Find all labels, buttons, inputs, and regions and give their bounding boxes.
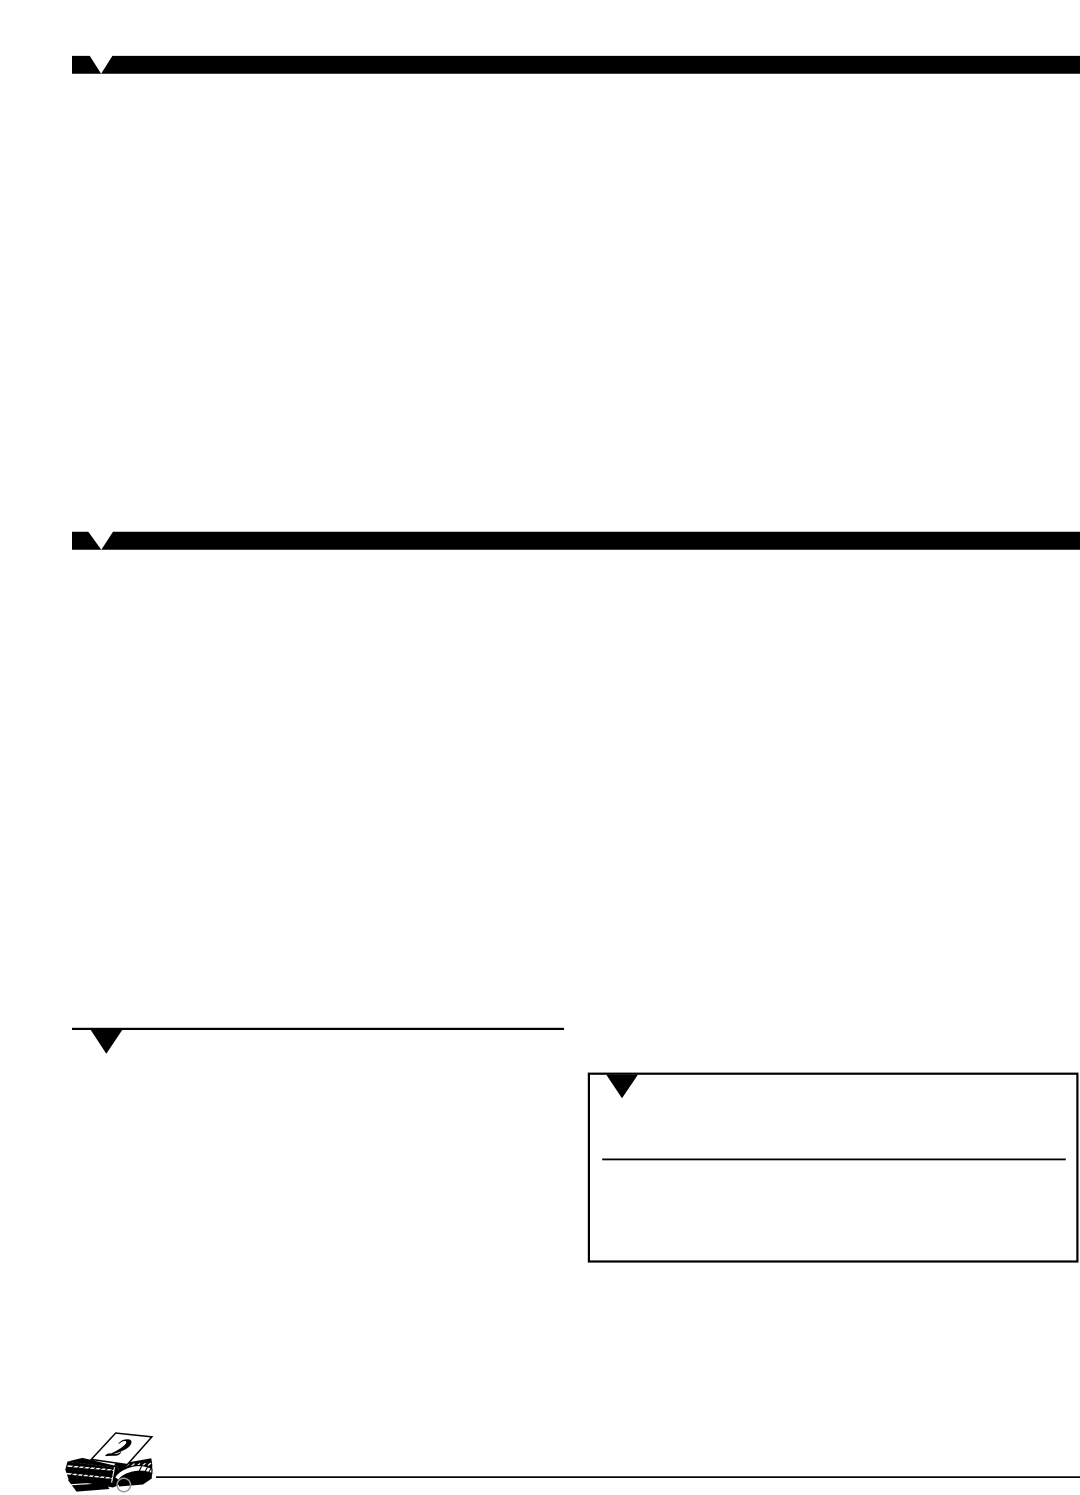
printer rear right wedge (121, 1458, 153, 1467)
page number printer icon (65, 1433, 152, 1492)
note box (589, 1074, 1078, 1262)
note box marker triangle (606, 1075, 638, 1099)
printer right face (118, 1465, 152, 1487)
note box rule (602, 1159, 1066, 1161)
face separator (112, 1467, 115, 1482)
printer front face (65, 1462, 121, 1488)
printer output tray sheets (68, 1478, 110, 1492)
tray sheet separation stripe (70, 1483, 106, 1485)
hook ring (117, 1478, 130, 1491)
footer rule (156, 1476, 1080, 1478)
paper slot wedge (114, 1463, 128, 1467)
printer top face (68, 1458, 121, 1468)
front bevel stripe lower (67, 1474, 112, 1479)
second section bar (72, 532, 1080, 550)
paper sheet (91, 1433, 152, 1465)
bevel hatches lower (71, 1473, 113, 1479)
bevel hatches upper (72, 1465, 114, 1471)
subsection marker triangle (90, 1028, 124, 1054)
subsection rule (72, 1028, 564, 1030)
top section bar (72, 56, 1080, 74)
front bevel stripe upper (68, 1466, 114, 1470)
handset buttons (139, 1466, 151, 1472)
page number 2 (105, 1439, 131, 1456)
handset (115, 1466, 153, 1481)
right ridge hatches (126, 1463, 151, 1466)
